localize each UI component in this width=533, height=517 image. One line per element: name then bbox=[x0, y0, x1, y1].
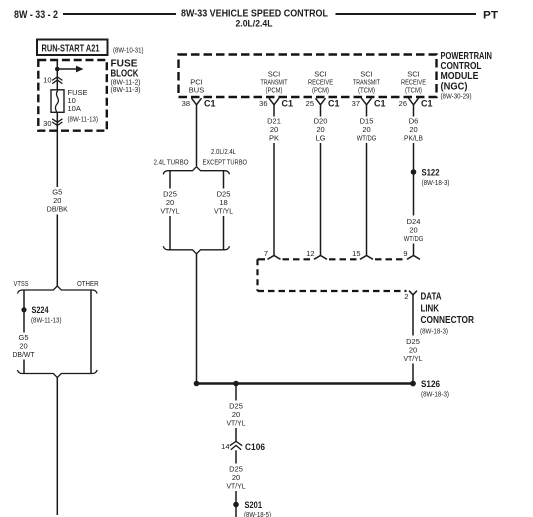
header left rule bbox=[63, 13, 176, 15]
svg-text:CONNECTOR: CONNECTOR bbox=[421, 315, 475, 326]
fuse block label bbox=[111, 59, 141, 95]
DLC label DATA LINK CONNECTOR bbox=[420, 292, 475, 336]
svg-text:(8W-11-13): (8W-11-13) bbox=[31, 316, 62, 325]
DLC pin 2 connector Y bbox=[409, 291, 417, 295]
svg-text:PT: PT bbox=[483, 10, 498, 22]
svg-text:(TCM): (TCM) bbox=[405, 86, 422, 95]
header title bbox=[181, 9, 328, 29]
svg-text:EXCEPT TURBO: EXCEPT TURBO bbox=[203, 158, 248, 167]
svg-text:PK/LB: PK/LB bbox=[404, 134, 423, 143]
splice S201 bbox=[233, 500, 271, 517]
wire OTHER branch bbox=[90, 290, 92, 374]
wire label D25 20 VT/YL (turbo) bbox=[161, 190, 180, 216]
svg-text:30: 30 bbox=[43, 119, 51, 128]
svg-text:26: 26 bbox=[399, 99, 407, 108]
svg-text:DATA: DATA bbox=[421, 292, 442, 303]
merge brace turbo branch bbox=[163, 246, 229, 254]
wire label D24 20 WT/DG bbox=[404, 217, 424, 243]
svg-text:2.0L/2.4L: 2.0L/2.4L bbox=[236, 19, 273, 29]
splice S126 bbox=[410, 379, 449, 399]
PCM pin label SCI RECEIVE (PCM) bbox=[308, 70, 333, 95]
pin 25 C1 connector bbox=[306, 98, 340, 108]
svg-text:(8W-11-3): (8W-11-3) bbox=[111, 85, 141, 94]
wire down to S126 bbox=[412, 364, 414, 384]
DLC dashed top edge bbox=[258, 258, 406, 260]
wire down to next sheet bbox=[56, 378, 58, 516]
svg-text:VTSS: VTSS bbox=[14, 279, 29, 288]
wire D20 down to DLC pin 12 bbox=[320, 143, 322, 256]
merge brace VTSS/OTHER bbox=[17, 370, 97, 378]
svg-text:(8W-18-5): (8W-18-5) bbox=[244, 510, 271, 517]
svg-text:(TCM): (TCM) bbox=[358, 86, 375, 95]
svg-text:VT/YL: VT/YL bbox=[404, 354, 423, 363]
wire PCI bus down to splice bbox=[196, 254, 198, 384]
svg-text:VT/YL: VT/YL bbox=[227, 419, 246, 428]
svg-text:C106: C106 bbox=[245, 442, 265, 452]
wire VTSS branch lower bbox=[23, 360, 25, 374]
wire down from bus bbox=[235, 384, 237, 401]
svg-text:36: 36 bbox=[259, 99, 267, 108]
svg-text:VT/YL: VT/YL bbox=[214, 207, 233, 216]
node feed junction bbox=[55, 67, 60, 72]
wire to connector C106 bbox=[235, 428, 237, 442]
connector chevrons pin 10 bbox=[52, 77, 62, 84]
svg-text:9: 9 bbox=[403, 249, 407, 258]
wire label D25 20 VT/YL (pin2) bbox=[404, 337, 423, 363]
svg-text:2.0L/2.4L: 2.0L/2.4L bbox=[211, 147, 236, 156]
svg-text:C1: C1 bbox=[374, 99, 386, 109]
svg-text:MODULE: MODULE bbox=[441, 71, 479, 82]
svg-text:37: 37 bbox=[352, 99, 360, 108]
wire 2.4L turbo branch bbox=[169, 171, 171, 189]
svg-text:38: 38 bbox=[182, 99, 190, 108]
wire VTSS branch bbox=[23, 290, 25, 333]
svg-text:LG: LG bbox=[315, 134, 325, 143]
DLC pin 15 tent bbox=[360, 256, 373, 260]
wire below C106 bbox=[235, 450, 237, 463]
wire run-start feed bbox=[56, 60, 58, 90]
svg-text:25: 25 bbox=[306, 99, 314, 108]
wire from DLC pin 2 bbox=[412, 295, 414, 336]
svg-text:(8W-18-3): (8W-18-3) bbox=[420, 327, 448, 336]
svg-text:(8W-18-3): (8W-18-3) bbox=[422, 178, 450, 187]
PCM pin label SCI TRANSMIT (PCM) bbox=[261, 70, 288, 95]
PCM label POWERTRAIN CONTROL MODULE bbox=[441, 51, 493, 101]
svg-text:(8W-18-3): (8W-18-3) bbox=[421, 390, 449, 399]
wire turbo branch lower bbox=[169, 216, 171, 250]
wire D20 from pin 25 bbox=[320, 105, 322, 117]
wire D15 down to DLC pin 15 bbox=[366, 143, 368, 256]
svg-text:DB/BK: DB/BK bbox=[47, 205, 68, 214]
split brace VTSS/OTHER bbox=[17, 286, 97, 294]
split brace turbo branch bbox=[163, 167, 229, 175]
DLC pin 9 tent bbox=[407, 256, 420, 260]
wire label G5 20 DB/BK bbox=[47, 188, 68, 214]
PCM dashed box bbox=[179, 55, 437, 98]
wire D24 down to DLC pin 9 bbox=[413, 244, 415, 256]
svg-text:10: 10 bbox=[43, 76, 51, 85]
wire label D15 20 WT/DG bbox=[357, 117, 377, 143]
wire label G5 20 DB/WT bbox=[13, 333, 35, 359]
node left bus junction bbox=[194, 381, 200, 387]
wire D21 from pin 36 bbox=[273, 105, 275, 117]
svg-text:OTHER: OTHER bbox=[77, 279, 99, 288]
wire label D6 20 PK/LB bbox=[404, 117, 423, 143]
svg-text:PK: PK bbox=[269, 134, 279, 143]
wire label D25 20 VT/YL (upper) bbox=[227, 402, 246, 428]
wire D6 down through S122 bbox=[413, 143, 415, 216]
wire label D25 18 VT/YL (except turbo) bbox=[214, 190, 233, 216]
svg-text:C1: C1 bbox=[328, 99, 340, 109]
RUN-START A21 box bbox=[37, 40, 108, 56]
wire fuse output bbox=[56, 112, 58, 187]
svg-text:2.4L TURBO: 2.4L TURBO bbox=[154, 158, 189, 167]
DLC dashed bottom edge bbox=[258, 290, 407, 292]
svg-text:C1: C1 bbox=[421, 99, 433, 109]
wire to S201 bbox=[235, 491, 237, 517]
splice S122 bbox=[411, 168, 450, 188]
PCM pin label PCI BUS bbox=[189, 78, 204, 95]
svg-text:WT/DG: WT/DG bbox=[357, 134, 377, 143]
svg-text:2: 2 bbox=[404, 292, 408, 301]
bus wire S126 bbox=[197, 382, 414, 385]
svg-text:S126: S126 bbox=[421, 379, 440, 389]
wire except-turbo branch lower bbox=[223, 216, 225, 250]
wire label D25 20 VT/YL (lower) bbox=[227, 465, 246, 491]
svg-text:LINK: LINK bbox=[421, 304, 440, 315]
pin 36 C1 connector bbox=[259, 98, 293, 108]
svg-text:(8W-11-13): (8W-11-13) bbox=[68, 115, 99, 124]
svg-text:C1: C1 bbox=[282, 99, 294, 109]
label 2.0L/2.4L EXCEPT TURBO bbox=[203, 147, 248, 167]
svg-text:VT/YL: VT/YL bbox=[161, 207, 180, 216]
pin 26 C1 connector bbox=[399, 98, 433, 108]
PCM pin label SCI RECEIVE (TCM) bbox=[401, 70, 426, 95]
svg-text:C1: C1 bbox=[204, 99, 216, 109]
svg-text:(8W-30-29): (8W-30-29) bbox=[441, 92, 472, 101]
fuse block dashed box bbox=[38, 60, 107, 131]
DLC pin 12 tent bbox=[314, 256, 327, 260]
wire label D21 20 PK bbox=[267, 117, 281, 143]
wire except-turbo branch bbox=[223, 171, 225, 189]
pin 37 C1 connector bbox=[352, 98, 386, 108]
svg-text:S201: S201 bbox=[245, 500, 263, 510]
svg-text:DB/WT: DB/WT bbox=[13, 350, 35, 359]
svg-text:(PCM): (PCM) bbox=[312, 86, 329, 95]
wire D6 from pin 26 bbox=[413, 105, 415, 117]
arrow feed to other circuits bbox=[57, 66, 83, 73]
header page number 8W-33-2 bbox=[14, 9, 58, 21]
fuse value labels bbox=[68, 88, 99, 124]
wire to splice split bbox=[56, 215, 58, 287]
DLC dashed left edge bbox=[256, 259, 258, 291]
svg-text:RUN-START A21: RUN-START A21 bbox=[42, 44, 100, 55]
svg-text:(PCM): (PCM) bbox=[266, 86, 283, 95]
DLC pin 7 tent bbox=[268, 256, 281, 260]
svg-text:12: 12 bbox=[306, 249, 314, 258]
svg-text:7: 7 bbox=[264, 249, 268, 258]
node middle bus junction bbox=[233, 381, 239, 387]
svg-text:S224: S224 bbox=[32, 305, 49, 315]
svg-text:VT/YL: VT/YL bbox=[227, 482, 246, 491]
wire label D20 20 LG bbox=[314, 117, 328, 143]
svg-text:14: 14 bbox=[221, 442, 229, 451]
svg-text:10A: 10A bbox=[68, 104, 81, 113]
splice S224 bbox=[21, 305, 62, 325]
svg-text:BUS: BUS bbox=[189, 86, 204, 95]
svg-text:(8W-10-31): (8W-10-31) bbox=[113, 46, 144, 55]
header right rule bbox=[336, 13, 477, 15]
svg-text:S122: S122 bbox=[422, 168, 440, 178]
svg-text:8W - 33 - 2: 8W - 33 - 2 bbox=[14, 9, 58, 21]
PCM pin label SCI TRANSMIT (TCM) bbox=[353, 70, 380, 95]
fuse F10 symbol bbox=[51, 90, 64, 113]
pin 38 C1 connector bbox=[182, 98, 216, 108]
wire D21 down to DLC pin 7 bbox=[273, 143, 275, 256]
wire PCI BUS from pin 38 bbox=[196, 105, 198, 166]
svg-text:WT/DG: WT/DG bbox=[404, 234, 424, 243]
wire D15 from pin 37 bbox=[366, 105, 368, 117]
connector C106 chevrons bbox=[230, 441, 242, 450]
connector chevrons pin 30 bbox=[52, 119, 62, 126]
svg-text:15: 15 bbox=[352, 249, 360, 258]
